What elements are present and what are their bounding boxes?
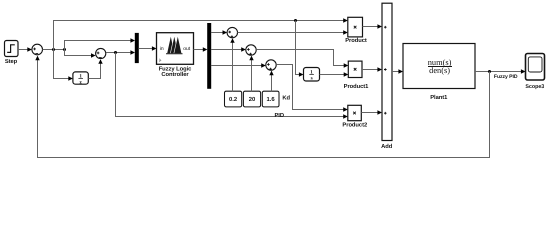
block U1 Fuzzy Logic Controller: [157, 33, 194, 78]
svg-text:in: in: [160, 46, 164, 52]
demux Demux: [207, 23, 211, 89]
constant block 20: [243, 91, 260, 107]
svg-text:den(s): den(s): [429, 66, 450, 75]
wire FLC output to Demux input: [194, 47, 208, 51]
wire Sum2 output to Mux input 2: [106, 50, 135, 54]
wire Demux out3 to SumC: [211, 63, 266, 67]
product block Product1: [344, 61, 370, 90]
wire SumA output to Product input 2: [238, 30, 348, 34]
svg-text:PID: PID: [274, 113, 284, 119]
node junction B: [63, 48, 66, 51]
wire SumB output down to Product1 input 1: [256, 50, 348, 68]
wire constant 0.2 up to SumA bottom: [230, 38, 234, 91]
svg-text:Kd: Kd: [282, 94, 290, 101]
wire junction A down to Unit Delay input: [54, 50, 73, 81]
svg-text:s: s: [311, 76, 313, 82]
wire Demux out2 to SumB: [211, 47, 246, 51]
wire Product output to Add: [363, 24, 383, 28]
node junction on e line feeding integrator: [294, 19, 297, 22]
mux Mux: [135, 33, 139, 63]
wire SumC output down to Product2 input 1: [276, 65, 348, 112]
wire Step to Sum1: [18, 47, 32, 51]
constant block 0.2: [225, 91, 242, 107]
node junction A on sum1 output: [52, 48, 55, 51]
svg-text:out: out: [183, 46, 191, 52]
wire Product2 output to Add: [361, 110, 382, 114]
sum junction SumB (+ +): [246, 45, 256, 56]
node junction on plant output (feedback tap): [488, 70, 491, 73]
product block Product: [345, 17, 367, 44]
svg-text:Product1: Product1: [344, 83, 370, 90]
constant block 1.6: [262, 91, 279, 107]
wire junction A up and right (top e line) to Product input 1: [54, 18, 348, 49]
sum junction SumA (+ +): [227, 27, 237, 38]
step source block Step: [5, 41, 19, 65]
wire Product1 output to Add: [362, 67, 382, 71]
svg-text:Fuzzy PID: Fuzzy PID: [494, 74, 518, 80]
svg-text:Add: Add: [381, 143, 393, 150]
svg-text:Controller: Controller: [161, 71, 189, 78]
wire e line down to integrator input: [296, 21, 304, 77]
wire Demux out1 to SumA: [211, 30, 227, 34]
wire Mux output to Fuzzy Logic Controller input: [138, 46, 156, 50]
svg-text:Product: Product: [345, 37, 367, 44]
wire constant 1.6 up to SumC bottom: [269, 71, 273, 92]
scope block Scope3: [525, 54, 544, 91]
svg-text:20: 20: [249, 96, 256, 103]
wire Sum1 output to junction B: [43, 49, 65, 51]
svg-text:Plant1: Plant1: [430, 94, 448, 101]
wire junction B up to Mux input 1: [65, 38, 136, 49]
wire Unit Delay output up to Sum2 bottom: [88, 59, 102, 78]
transfer function block Plant1 num(s)/den(s): [403, 44, 475, 102]
svg-text:0.2: 0.2: [229, 96, 238, 103]
wire Add output to Plant1: [392, 69, 403, 73]
node junction on Sum2 output (delta-e): [114, 51, 117, 54]
adder block Add: [381, 3, 393, 150]
sum junction Sum1 (+ -): [32, 44, 43, 55]
product block Product2: [342, 105, 367, 128]
wire constant 20 up to SumB bottom: [249, 56, 253, 92]
integrator block 1/s: [304, 68, 320, 82]
sum junction Sum2 (+ -): [96, 48, 106, 58]
wire integrator output to Product1 input 2: [320, 72, 349, 76]
svg-text:Product2: Product2: [342, 121, 367, 128]
wire Plant1 output to Scope3: [475, 69, 526, 73]
sum junction SumC (+ +): [266, 60, 276, 71]
wire delta-e down and right to Product2 input 2: [116, 53, 348, 119]
wire feedback loop to Sum1 bottom: [35, 56, 489, 158]
svg-text:Scope3: Scope3: [525, 84, 544, 90]
wire junction B down to Sum2 input: [65, 50, 96, 58]
svg-text:Step: Step: [5, 58, 18, 65]
unit delay block 1/z: [73, 72, 88, 86]
svg-text:1.6: 1.6: [266, 96, 275, 103]
